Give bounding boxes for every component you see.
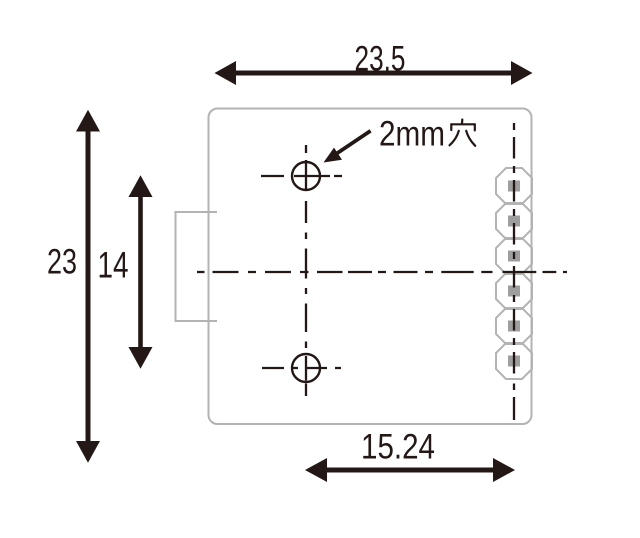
bottom dimension arrow 15.24 <box>305 458 515 482</box>
svg-text:15.24: 15.24 <box>361 428 435 467</box>
pin header octagon 3 <box>496 238 532 274</box>
bottom hole horizontal centerline <box>262 367 341 369</box>
left dimension arrow 23 <box>76 110 100 463</box>
pin contact square 3 <box>508 251 520 262</box>
svg-text:14: 14 <box>98 245 129 286</box>
top hole horizontal centerline <box>261 175 342 177</box>
svg-text:23.5: 23.5 <box>355 40 406 79</box>
bottom 2mm hole circle <box>292 354 320 382</box>
pin header octagon 5 <box>496 308 532 344</box>
annotation label kanji hole character <box>450 120 476 146</box>
middle dimension arrow 14 <box>129 175 153 368</box>
pin header octagon 2 <box>496 203 532 239</box>
pin header octagon 4 <box>496 273 532 309</box>
pin header octagon 1 <box>496 168 532 204</box>
horizontal main centerline <box>197 271 567 273</box>
vertical centerline through pin header <box>513 123 515 420</box>
top 2mm hole circle <box>292 162 320 190</box>
pin header octagon 6 <box>496 343 532 379</box>
pin contact square 6 <box>508 356 520 367</box>
svg-text:2mm: 2mm <box>379 115 445 154</box>
left side tab notch <box>176 212 218 321</box>
module body outline <box>209 109 532 425</box>
top dimension arrow 23.5 <box>215 61 533 85</box>
annotation leader arrow to hole <box>324 129 372 162</box>
pin contact square 5 <box>508 321 520 332</box>
svg-text:23: 23 <box>47 243 77 282</box>
vertical centerline through holes <box>305 145 307 396</box>
pin contact square 4 <box>508 286 520 297</box>
pin contact square 1 <box>508 181 520 192</box>
pin contact square 2 <box>508 216 520 227</box>
